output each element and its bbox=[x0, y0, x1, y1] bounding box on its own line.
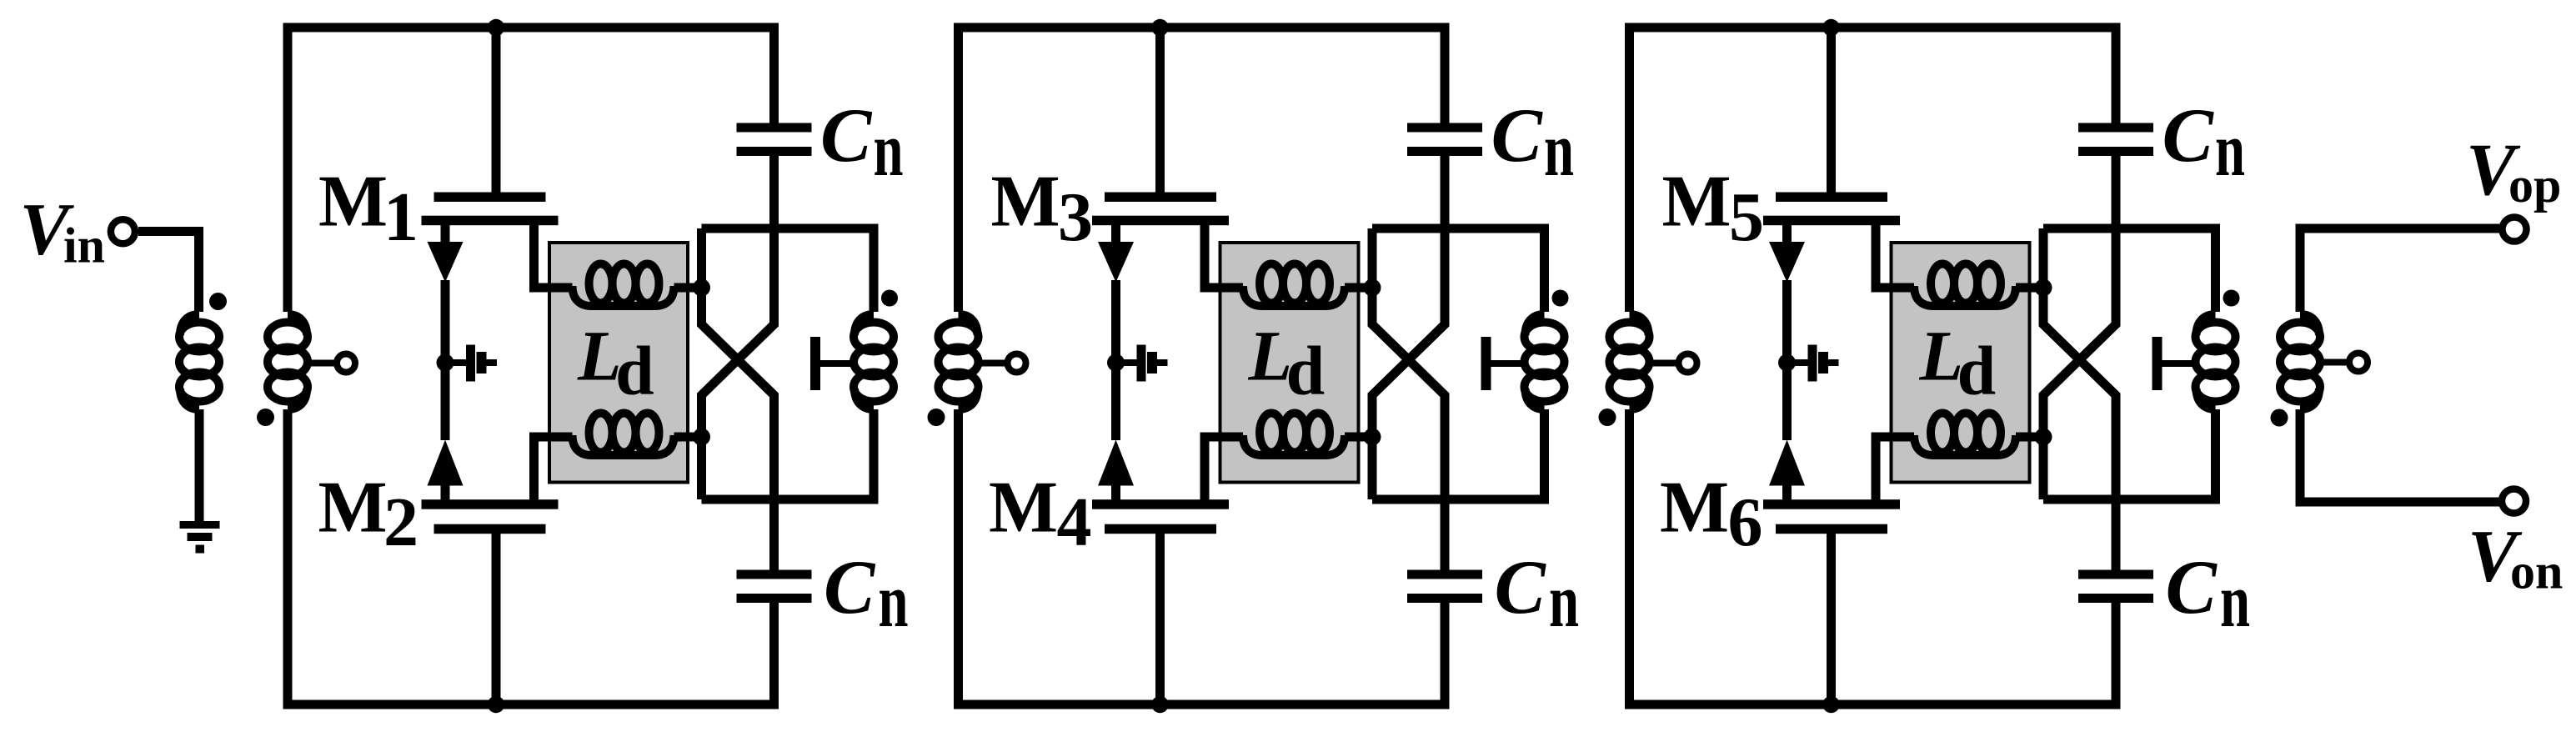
svg-text:on: on bbox=[2510, 544, 2563, 599]
svg-text:6: 6 bbox=[1728, 484, 1763, 561]
svg-text:4: 4 bbox=[1057, 484, 1092, 561]
svg-text:op: op bbox=[2508, 158, 2561, 213]
svg-text:M: M bbox=[991, 162, 1060, 243]
svg-text:M: M bbox=[318, 468, 388, 549]
svg-text:3: 3 bbox=[1058, 178, 1093, 256]
svg-text:1: 1 bbox=[383, 178, 418, 256]
svg-text:2: 2 bbox=[383, 484, 418, 561]
svg-text:M: M bbox=[1662, 162, 1732, 243]
svg-text:in: in bbox=[63, 218, 105, 273]
svg-text:5: 5 bbox=[1729, 178, 1764, 256]
svg-text:M: M bbox=[318, 162, 388, 243]
svg-text:M: M bbox=[989, 468, 1058, 549]
svg-text:M: M bbox=[1660, 468, 1729, 549]
